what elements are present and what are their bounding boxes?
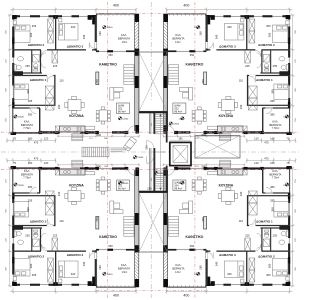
svg-text:ΔΩΜΑΤΙΟ 1: ΔΩΜΑΤΙΟ 1 bbox=[30, 219, 47, 223]
svg-text:86.4m²: 86.4m² bbox=[174, 111, 182, 114]
corridor entry door arcs bbox=[147, 141, 154, 148]
svg-text:120: 120 bbox=[44, 161, 49, 165]
svg-text:300: 300 bbox=[268, 32, 272, 37]
svg-text:13m²: 13m² bbox=[122, 271, 128, 274]
svg-text:225: 225 bbox=[53, 234, 58, 238]
kitchen counter sink stove fridge bbox=[60, 126, 86, 132]
svg-text:ΚΟΥΖΙΝΑ: ΚΟΥΖΙΝΑ bbox=[69, 183, 84, 187]
svg-text:ΒΕΡΑΝΤΑ: ΒΕΡΑΝΤΑ bbox=[21, 123, 33, 127]
svg-text:340: 340 bbox=[82, 261, 86, 266]
svg-text:400: 400 bbox=[113, 294, 119, 298]
svg-text:12850: 12850 bbox=[179, 183, 186, 185]
apartment number box bbox=[173, 180, 186, 191]
svg-text:ΒΕΡΑΝΤΑ: ΒΕΡΑΝΤΑ bbox=[172, 267, 184, 271]
svg-text:340: 340 bbox=[82, 34, 86, 39]
svg-text:400: 400 bbox=[113, 4, 119, 8]
svg-text:320: 320 bbox=[227, 272, 232, 276]
svg-text:255: 255 bbox=[273, 234, 278, 238]
svg-text:86.4m²: 86.4m² bbox=[118, 188, 126, 191]
courtyard void X bbox=[195, 136, 240, 159]
bed room3 bbox=[59, 24, 79, 41]
svg-text:295: 295 bbox=[270, 99, 275, 103]
room labels apartment 203 bbox=[185, 43, 274, 118]
svg-text:ΚΟΥΖΙΝΑ: ΚΟΥΖΙΝΑ bbox=[219, 183, 234, 187]
expansion joint double line bbox=[149, 114, 151, 135]
svg-text:ΚΟΥΖΙΝΑ: ΚΟΥΖΙΝΑ bbox=[69, 114, 84, 118]
svg-text:12845: 12845 bbox=[107, 27, 114, 29]
svg-text:340: 340 bbox=[215, 261, 219, 266]
svg-text:75: 75 bbox=[286, 137, 289, 141]
apartment number box bbox=[173, 103, 186, 114]
level markers bbox=[196, 272, 199, 275]
svg-text:295: 295 bbox=[28, 99, 33, 103]
svg-text:75: 75 bbox=[13, 137, 16, 141]
svg-text:700: 700 bbox=[95, 217, 99, 222]
svg-text:ΒΕΡΑΝΤΑ: ΒΕΡΑΝΤΑ bbox=[118, 267, 130, 271]
svg-text:12850: 12850 bbox=[137, 157, 144, 159]
svg-text:475: 475 bbox=[34, 157, 39, 161]
svg-text:300: 300 bbox=[271, 207, 275, 212]
svg-text:300: 300 bbox=[29, 263, 33, 268]
svg-text:ΔΩΜΑΤΙΟ 3: ΔΩΜΑΤΙΟ 3 bbox=[67, 253, 84, 257]
planter grille bbox=[82, 147, 109, 157]
svg-text:12850: 12850 bbox=[179, 118, 186, 120]
svg-text:340: 340 bbox=[239, 104, 243, 109]
small note text block bbox=[111, 148, 131, 149]
svg-text:305: 305 bbox=[266, 24, 271, 28]
svg-text:590: 590 bbox=[201, 133, 206, 137]
svg-text:110: 110 bbox=[59, 219, 64, 223]
svg-text:75: 75 bbox=[13, 161, 16, 165]
svg-text:300: 300 bbox=[26, 207, 30, 212]
room labels apartment 204 bbox=[185, 183, 274, 258]
svg-text:400: 400 bbox=[183, 294, 189, 298]
svg-text:590: 590 bbox=[96, 133, 101, 137]
svg-text:340: 340 bbox=[215, 34, 219, 39]
svg-text:590: 590 bbox=[96, 164, 101, 168]
svg-text:300: 300 bbox=[26, 89, 30, 94]
dining table bbox=[99, 110, 107, 121]
svg-text:700: 700 bbox=[201, 79, 205, 84]
svg-text:255: 255 bbox=[25, 64, 30, 68]
apartment number box bbox=[117, 180, 130, 191]
svg-text:86.4m²: 86.4m² bbox=[174, 188, 182, 191]
svg-text:ΚΑΛ.: ΚΑΛ. bbox=[121, 33, 127, 37]
svg-text:120: 120 bbox=[254, 161, 259, 165]
svg-text:350: 350 bbox=[108, 53, 113, 57]
axis / joint lines bbox=[1, 151, 299, 153]
svg-text:ΔΩΜΑΤΙΟ 3: ΔΩΜΑΤΙΟ 3 bbox=[219, 253, 236, 257]
svg-text:ΚΑΛ.: ΚΑΛ. bbox=[175, 263, 181, 267]
svg-text:700: 700 bbox=[95, 79, 99, 84]
svg-text:12845: 12845 bbox=[107, 274, 114, 276]
svg-text:475: 475 bbox=[264, 157, 269, 161]
svg-text:ΚΑΘΙΣΤΙΚΟ: ΚΑΘΙΣΤΙΚΟ bbox=[99, 62, 117, 66]
dimension lines bbox=[6, 8, 140, 144]
svg-text:ΔΩΜΑΤΙΟ 2: ΔΩΜΑΤΙΟ 2 bbox=[28, 255, 45, 259]
svg-text:12845: 12845 bbox=[283, 185, 290, 187]
corridor walls bbox=[139, 111, 168, 113]
svg-text:ΚΑΛ.: ΚΑΛ. bbox=[175, 33, 181, 37]
svg-text:12845: 12845 bbox=[283, 117, 290, 119]
svg-text:ΒΕΡΑΝΤΑ: ΒΕΡΑΝΤΑ bbox=[118, 37, 130, 41]
concrete columns bbox=[12, 15, 17, 19]
svg-text:590: 590 bbox=[201, 164, 206, 168]
svg-text:ΒΕΡΑΝΤΑ: ΒΕΡΑΝΤΑ bbox=[269, 172, 281, 176]
apartment number box bbox=[117, 103, 130, 114]
hatched right exterior wall bbox=[135, 14, 139, 51]
svg-text:120: 120 bbox=[44, 137, 49, 141]
svg-text:340: 340 bbox=[57, 191, 61, 196]
level markers bbox=[103, 26, 106, 29]
svg-text:ΔΩΜΑΤΙΟ 2: ΔΩΜΑΤΙΟ 2 bbox=[258, 43, 275, 47]
elevator shaft bbox=[170, 142, 191, 165]
svg-text:110: 110 bbox=[59, 78, 64, 82]
closets with X bbox=[48, 19, 54, 31]
room labels apartment 201 bbox=[28, 183, 118, 258]
apartment 203 top-right (mirror) bbox=[162, 8, 296, 144]
svg-text:180: 180 bbox=[98, 265, 102, 270]
living room furniture bbox=[96, 72, 99, 85]
svg-text:300: 300 bbox=[29, 32, 33, 37]
svg-text:340: 340 bbox=[57, 104, 61, 109]
svg-text:75: 75 bbox=[286, 161, 289, 165]
svg-text:180: 180 bbox=[199, 265, 203, 270]
door arcs bbox=[41, 50, 47, 57]
svg-text:400: 400 bbox=[183, 4, 189, 8]
svg-text:ΚΑΛ.: ΚΑΛ. bbox=[272, 169, 278, 173]
svg-text:305: 305 bbox=[32, 273, 37, 277]
svg-text:110: 110 bbox=[239, 219, 244, 223]
apartment 202 top-left bbox=[6, 8, 140, 144]
svg-text:320: 320 bbox=[227, 25, 232, 29]
svg-text:120: 120 bbox=[254, 137, 259, 141]
svg-text:ΒΕΡΑΝΤΑ: ΒΕΡΑΝΤΑ bbox=[269, 123, 281, 127]
svg-text:225: 225 bbox=[245, 64, 250, 68]
svg-text:225: 225 bbox=[53, 64, 58, 68]
svg-text:ΚΑΛ.: ΚΑΛ. bbox=[24, 119, 30, 123]
svg-text:ΔΩΜΑΤΙΟ 3: ΔΩΜΑΤΙΟ 3 bbox=[219, 44, 236, 48]
svg-text:350: 350 bbox=[190, 244, 195, 248]
svg-text:12850: 12850 bbox=[158, 173, 165, 175]
svg-text:475: 475 bbox=[34, 141, 39, 145]
svg-text:160: 160 bbox=[28, 161, 33, 165]
svg-text:380: 380 bbox=[270, 185, 275, 189]
svg-text:300: 300 bbox=[271, 89, 275, 94]
svg-text:ΔΩΜΑΤΙΟ 1: ΔΩΜΑΤΙΟ 1 bbox=[256, 219, 273, 223]
svg-text:WC: WC bbox=[34, 233, 38, 236]
svg-text:475: 475 bbox=[264, 141, 269, 145]
svg-text:180: 180 bbox=[199, 31, 203, 36]
svg-text:295: 295 bbox=[270, 198, 275, 202]
svg-text:160: 160 bbox=[28, 137, 33, 141]
svg-text:180: 180 bbox=[98, 31, 102, 36]
svg-text:7.79m²: 7.79m² bbox=[272, 127, 280, 130]
svg-text:305: 305 bbox=[266, 273, 271, 277]
svg-text:ΚΑΛ.: ΚΑΛ. bbox=[24, 169, 30, 173]
parking car bbox=[123, 137, 137, 152]
interior partition walls bbox=[13, 49, 96, 50]
svg-text:350: 350 bbox=[108, 244, 113, 248]
vent grill below wall bbox=[72, 134, 83, 141]
svg-text:12845: 12845 bbox=[194, 27, 201, 29]
svg-text:ΔΩΜΑΤΙΟ 1: ΔΩΜΑΤΙΟ 1 bbox=[30, 78, 47, 82]
svg-text:ΚΑΘΙΣΤΙΚΟ: ΚΑΘΙΣΤΙΚΟ bbox=[185, 235, 203, 239]
section line B-B vertical (red dash-dot) bbox=[107, 2, 109, 298]
veranda top-right railing bbox=[96, 13, 136, 15]
svg-text:295: 295 bbox=[28, 198, 33, 202]
svg-text:300: 300 bbox=[268, 263, 272, 268]
svg-text:7.79m²: 7.79m² bbox=[23, 177, 31, 180]
svg-text:13m²: 13m² bbox=[122, 41, 128, 44]
svg-text:160: 160 bbox=[270, 137, 275, 141]
stair direction arrow bbox=[160, 116, 162, 189]
apartment 204 bottom-right (mirror) bbox=[162, 158, 296, 294]
svg-text:ΚΑΘΙΣΤΙΚΟ: ΚΑΘΙΣΤΙΚΟ bbox=[99, 235, 117, 239]
svg-text:225: 225 bbox=[245, 234, 250, 238]
bottom exterior wall with kitchen window and entrance door gap bbox=[39, 131, 139, 133]
svg-text:ΔΩΜΑΤΙΟ 2: ΔΩΜΑΤΙΟ 2 bbox=[28, 43, 45, 47]
svg-text:700: 700 bbox=[201, 217, 205, 222]
svg-text:380: 380 bbox=[270, 112, 275, 116]
svg-text:380: 380 bbox=[28, 185, 33, 189]
section line A-A (red dash-dot) bbox=[1, 131, 299, 133]
svg-text:12845: 12845 bbox=[18, 117, 25, 119]
elevator dim bbox=[170, 139, 191, 141]
svg-text:ΔΩΜΑΤΙΟ 1: ΔΩΜΑΤΙΟ 1 bbox=[256, 78, 273, 82]
lightwell void top with cross bbox=[139, 52, 167, 111]
svg-text:WC: WC bbox=[265, 67, 269, 70]
svg-text:7.79m²: 7.79m² bbox=[23, 127, 31, 130]
kitchen table bbox=[68, 100, 81, 111]
svg-text:550: 550 bbox=[145, 145, 149, 150]
svg-text:ΚΑΛ.: ΚΑΛ. bbox=[121, 263, 127, 267]
room labels apartment 202 bbox=[28, 43, 118, 118]
svg-text:250: 250 bbox=[147, 186, 152, 190]
svg-text:ΔΩΜΑΤΙΟ 3: ΔΩΜΑΤΙΟ 3 bbox=[67, 44, 84, 48]
svg-text:WC: WC bbox=[265, 233, 269, 236]
svg-text:13m²: 13m² bbox=[175, 41, 181, 44]
apartment 201 bottom-left (mirror) bbox=[6, 158, 140, 294]
svg-text:320: 320 bbox=[71, 25, 76, 29]
svg-text:ΒΕΡΑΝΤΑ: ΒΕΡΑΝΤΑ bbox=[21, 172, 33, 176]
level markers bbox=[103, 272, 106, 275]
apartment outer walls bbox=[12, 15, 14, 108]
svg-text:305: 305 bbox=[32, 24, 37, 28]
svg-text:ΚΑΛ.: ΚΑΛ. bbox=[272, 119, 278, 123]
bed room2 bbox=[15, 25, 31, 43]
bed room1 bbox=[14, 84, 29, 100]
stair treads bbox=[155, 115, 166, 189]
svg-text:320: 320 bbox=[71, 272, 76, 276]
svg-text:7.79m²: 7.79m² bbox=[272, 177, 280, 180]
svg-text:180: 180 bbox=[178, 137, 183, 140]
svg-text:12850: 12850 bbox=[173, 124, 180, 126]
svg-text:340: 340 bbox=[239, 191, 243, 196]
lightwell void bottom with cross bbox=[139, 193, 167, 252]
svg-text:ΔΩΜΑΤΙΟ 2: ΔΩΜΑΤΙΟ 2 bbox=[258, 255, 275, 259]
wc fixtures bbox=[18, 57, 24, 61]
level markers bbox=[196, 26, 199, 29]
balcony bottom-left bbox=[12, 108, 14, 133]
svg-text:110: 110 bbox=[239, 78, 244, 82]
living/veranda dividing wall with glass doors bbox=[96, 50, 139, 52]
svg-text:WC: WC bbox=[34, 67, 38, 70]
svg-text:ΚΑΘΙΣΤΙΚΟ: ΚΑΘΙΣΤΙΚΟ bbox=[185, 62, 203, 66]
svg-text:12845: 12845 bbox=[18, 185, 25, 187]
svg-text:ΒΕΡΑΝΤΑ: ΒΕΡΑΝΤΑ bbox=[172, 37, 184, 41]
svg-text:ΚΟΥΖΙΝΑ: ΚΟΥΖΙΝΑ bbox=[219, 114, 234, 118]
svg-text:160: 160 bbox=[270, 161, 275, 165]
svg-text:255: 255 bbox=[25, 234, 30, 238]
svg-text:12850: 12850 bbox=[122, 118, 129, 120]
svg-text:86.4m²: 86.4m² bbox=[118, 111, 126, 114]
svg-text:380: 380 bbox=[28, 112, 33, 116]
svg-text:350: 350 bbox=[190, 53, 195, 57]
svg-text:13m²: 13m² bbox=[175, 271, 181, 274]
svg-text:12845: 12845 bbox=[194, 274, 201, 276]
svg-text:255: 255 bbox=[273, 64, 278, 68]
svg-text:12850: 12850 bbox=[122, 183, 129, 185]
